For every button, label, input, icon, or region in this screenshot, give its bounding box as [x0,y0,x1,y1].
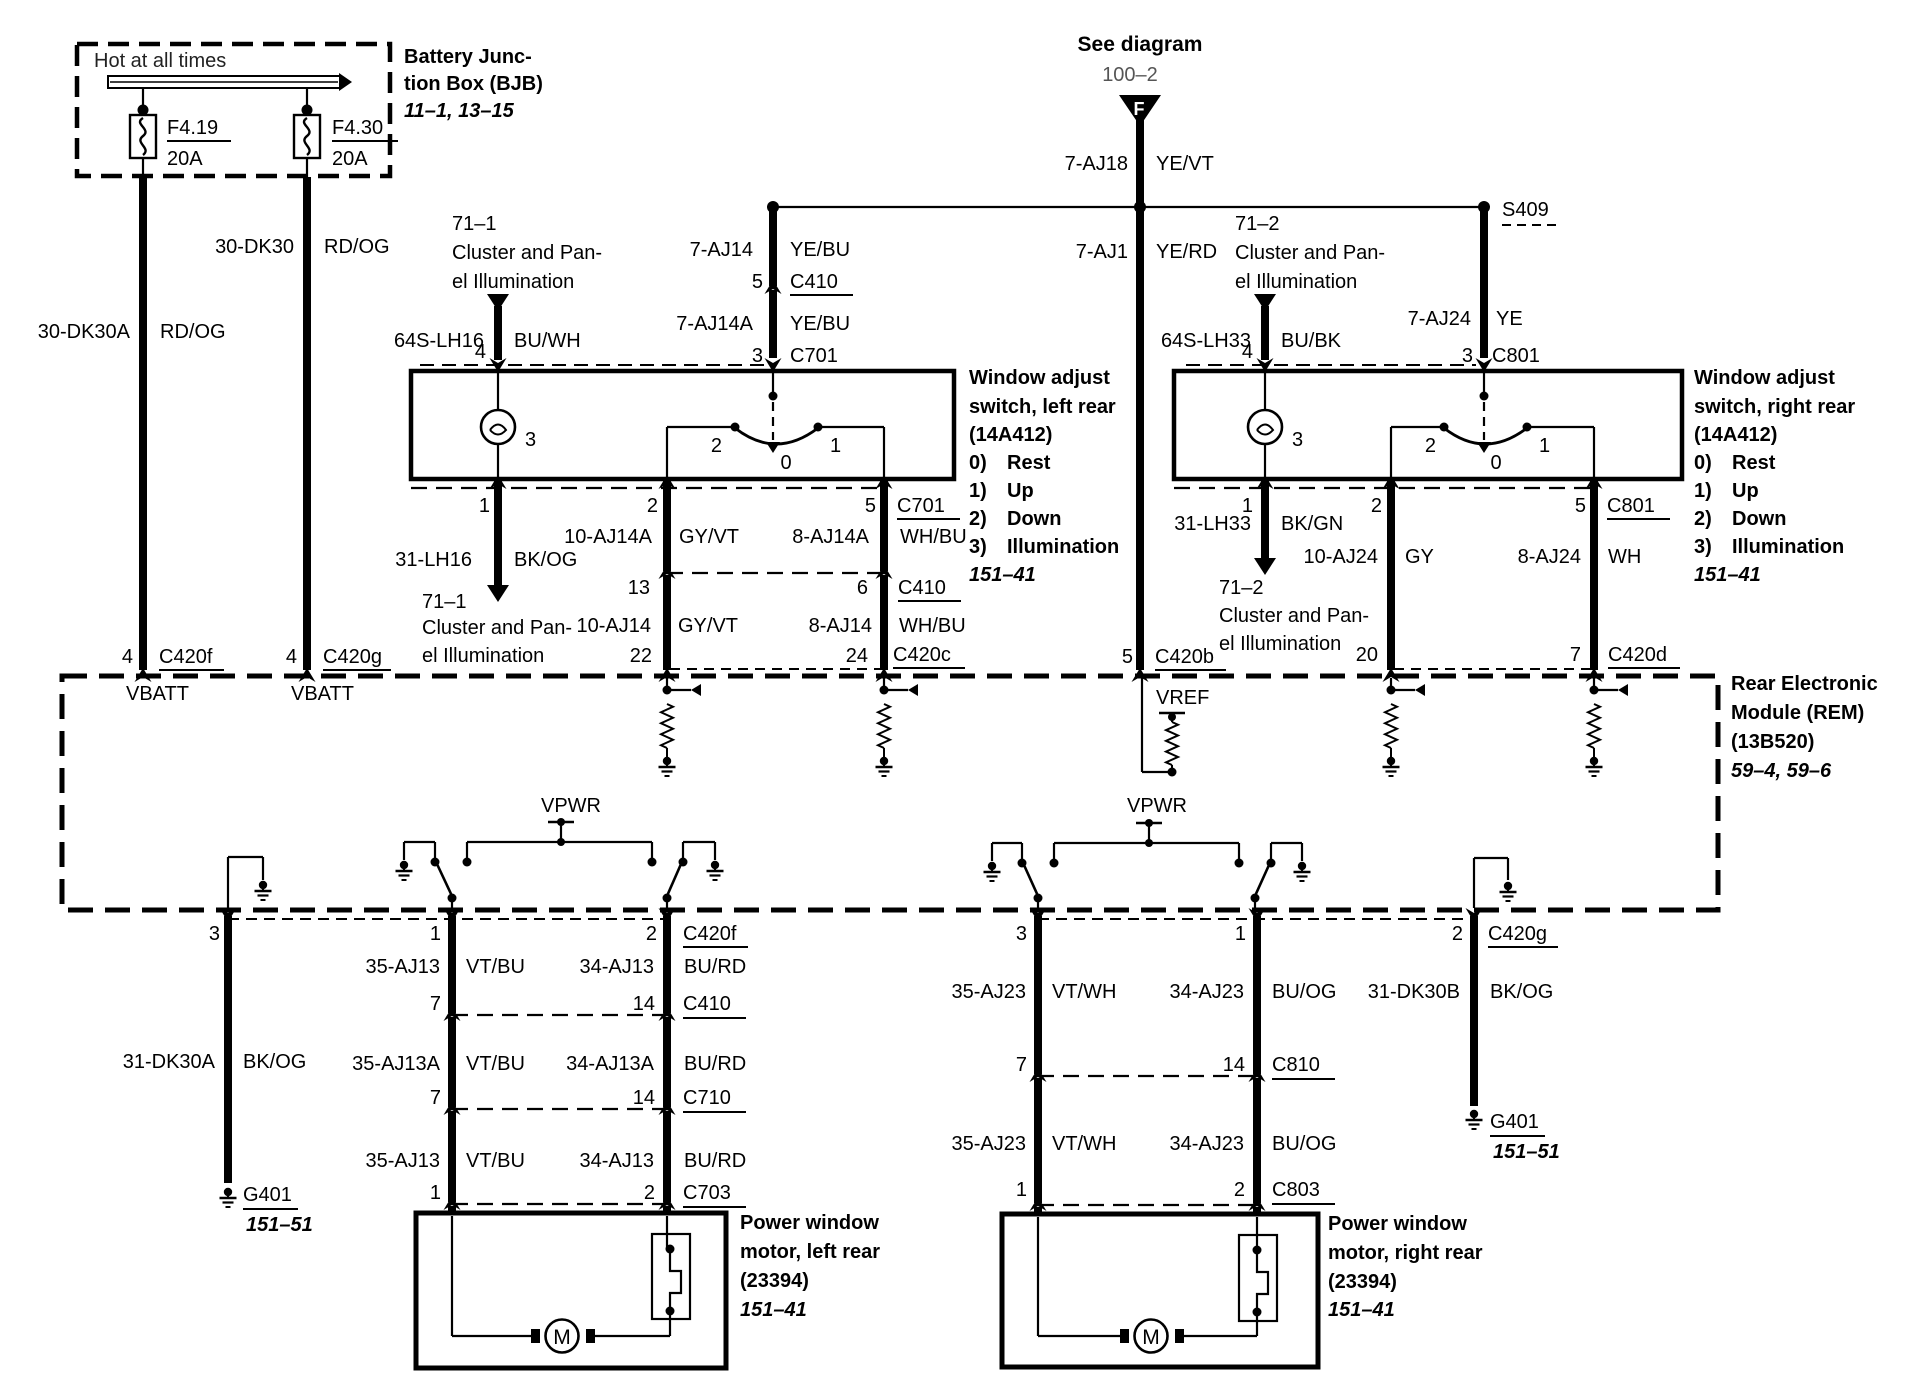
svg-text:5: 5 [1575,495,1586,517]
svg-text:C410: C410 [790,271,838,293]
svg-text:Cluster and Pan-: Cluster and Pan- [1235,242,1385,264]
svg-text:BU/BK: BU/BK [1281,330,1342,352]
connector C420g line below REM (right) [1038,918,1478,920]
svg-text:4: 4 [286,646,297,668]
svg-text:C420g: C420g [323,646,382,668]
svg-text:2): 2) [1694,508,1712,530]
svg-text:31-DK30B: 31-DK30B [1368,981,1460,1003]
switch common from C801 [1483,373,1485,393]
wire 8-AJ14A WH/BU [876,475,893,489]
splice S409 [1478,201,1490,213]
svg-text:2: 2 [644,1182,655,1204]
wire 10-AJ14 GY/VT [663,575,671,670]
svg-text:2: 2 [1234,1179,1245,1201]
svg-text:2: 2 [646,923,657,945]
thermal circuit breaker (left motor) [652,1234,690,1319]
svg-text:71–2: 71–2 [1235,213,1280,235]
REM input sensing network under pin 24 [880,686,889,695]
junction dot at 7-AJ14 branch [767,201,779,213]
svg-text:151–51: 151–51 [246,1214,313,1236]
svg-text:switch, right rear: switch, right rear [1694,396,1855,418]
REM pin 2 output wire 34-AJ13 BU/RD [659,908,676,922]
svg-text:20: 20 [1356,644,1378,666]
wire 8-AJ14 WH/BU [880,575,888,670]
svg-text:Battery Junc-: Battery Junc- [404,46,532,68]
switch common from C701 [772,373,774,393]
svg-text:2): 2) [969,508,987,530]
svg-text:GY/VT: GY/VT [678,615,738,637]
svg-text:20A: 20A [332,148,368,170]
wire 35-AJ13A VT/BU [448,1017,456,1107]
svg-text:VBATT: VBATT [126,683,189,705]
switch contact 2 right [1440,423,1449,432]
connector C420f line below REM (left) [228,918,668,920]
lamp symbol (illumination) in right switch [1248,410,1282,444]
svg-text:10-AJ24: 10-AJ24 [1304,546,1379,568]
svg-text:Down: Down [1732,508,1786,530]
svg-text:C803: C803 [1272,1179,1320,1201]
svg-text:Rear Electronic: Rear Electronic [1731,673,1878,695]
REM pin 1 output wire 34-AJ23 BU/OG [1249,908,1266,922]
svg-text:Up: Up [1732,480,1759,502]
svg-text:151–41: 151–41 [1328,1299,1395,1321]
thermal circuit breaker (right motor) [1239,1235,1277,1321]
svg-text:F: F [1134,99,1145,119]
svg-text:71–1: 71–1 [422,591,467,613]
power bus bar with arrow [108,76,340,88]
horizontal splice wire to S409 [773,206,1484,208]
svg-text:Power window: Power window [740,1212,879,1234]
svg-text:WH/BU: WH/BU [900,526,967,548]
relay SPDT for REM pin 1 (right motor) [1271,842,1302,844]
svg-text:switch, left rear: switch, left rear [969,396,1116,418]
switch blade arc [735,428,818,444]
window adjust switch left rear box [411,371,954,479]
svg-text:Cluster and Pan-: Cluster and Pan- [1219,605,1369,627]
svg-text:(23394): (23394) [740,1270,809,1292]
fuse F4.19 20A [130,115,156,158]
svg-text:VT/WH: VT/WH [1052,1133,1116,1155]
svg-text:35-AJ13: 35-AJ13 [366,956,441,978]
svg-text:C410: C410 [898,577,946,599]
svg-text:5: 5 [1122,646,1133,668]
svg-text:14: 14 [1223,1054,1245,1076]
svg-text:0): 0) [969,452,987,474]
svg-text:motor, left rear: motor, left rear [740,1241,880,1263]
svg-text:WH: WH [1608,546,1641,568]
wire 31-LH16 BK/OG to illumination [490,475,507,489]
svg-text:el Illumination: el Illumination [422,645,544,667]
svg-text:F4.19: F4.19 [167,117,218,139]
svg-text:Power window: Power window [1328,1213,1467,1235]
connector C410 line pins 13 and 6 [667,572,884,574]
wire 64S-LH16 BU/WH with source arrow [487,294,509,311]
svg-text:Window adjust: Window adjust [969,367,1110,389]
window adjust switch right rear box [1174,371,1682,479]
switch contact 1 right [1523,423,1532,432]
svg-text:151–41: 151–41 [969,564,1036,586]
wire 8-AJ24 WH [1586,475,1603,489]
svg-text:1: 1 [1539,435,1550,457]
wire 10-AJ24 GY [1383,475,1400,489]
switch blade arc right [1444,428,1527,444]
svg-text:WH/BU: WH/BU [899,615,966,637]
svg-text:2: 2 [711,435,722,457]
svg-text:C420d: C420d [1608,644,1667,666]
svg-text:el Illumination: el Illumination [1235,271,1357,293]
svg-text:BK/OG: BK/OG [1490,981,1553,1003]
Rear Electronic Module (REM) dashed box [62,676,1718,910]
svg-text:14: 14 [633,1087,655,1109]
svg-text:YE/BU: YE/BU [790,239,850,261]
svg-text:24: 24 [846,645,868,667]
relay SPDT for REM pin 2 (left motor down) [683,841,715,843]
thin dashed connector line above right switch box [1186,364,1476,366]
svg-text:GY/VT: GY/VT [679,526,739,548]
wire 30-DK30 RD/OG from fuse F4.30 to REM pin 4 [306,158,308,177]
wire: bus to fuse F4.30 [306,88,308,116]
svg-text:71–1: 71–1 [452,213,497,235]
wire 7-AJ18 YE/VT from F to junction [1136,120,1144,670]
svg-text:BK/OG: BK/OG [514,549,577,571]
svg-text:YE/VT: YE/VT [1156,153,1214,175]
svg-text:M: M [553,1326,571,1349]
svg-text:1): 1) [1694,480,1712,502]
svg-text:35-AJ13: 35-AJ13 [366,1150,441,1172]
svg-text:13: 13 [628,577,650,599]
svg-text:34-AJ13: 34-AJ13 [580,1150,655,1172]
REM pin 1 output wire 35-AJ13 VT/BU [444,908,461,922]
wire 34-AJ23 BU/OG (lower) [1253,1078,1261,1203]
svg-text:4: 4 [122,646,133,668]
junction dot on 7-AJ18 [1134,201,1146,213]
svg-text:5: 5 [865,495,876,517]
svg-text:20A: 20A [167,148,203,170]
svg-text:VBATT: VBATT [291,683,354,705]
svg-text:Rest: Rest [1732,452,1776,474]
svg-text:59–4, 59–6: 59–4, 59–6 [1731,760,1832,782]
svg-text:VT/BU: VT/BU [466,1053,525,1075]
REM pin 3 output wire 35-AJ23 VT/WH [1030,908,1047,922]
svg-text:RD/OG: RD/OG [324,236,390,258]
svg-text:64S-LH33: 64S-LH33 [1161,330,1251,352]
svg-text:0): 0) [1694,452,1712,474]
svg-text:1: 1 [430,923,441,945]
svg-text:C410: C410 [683,993,731,1015]
relay SPDT for REM pin 1 (left motor up) [404,841,435,843]
connector C710 line pins 7 and 14 [452,1108,670,1110]
svg-text:BK/GN: BK/GN [1281,513,1343,535]
svg-text:(13B520): (13B520) [1731,731,1814,753]
svg-text:BU/OG: BU/OG [1272,1133,1336,1155]
svg-text:VPWR: VPWR [1127,795,1187,817]
svg-text:C703: C703 [683,1182,731,1204]
svg-text:Cluster and Pan-: Cluster and Pan- [422,617,572,639]
svg-text:VT/BU: VT/BU [466,1150,525,1172]
svg-text:(14A412): (14A412) [969,424,1052,446]
svg-text:64S-LH16: 64S-LH16 [394,330,484,352]
ground G401 (left) 151-51 [224,1188,232,1196]
svg-text:BU/RD: BU/RD [684,1150,746,1172]
switch contact 2 [731,423,740,432]
svg-text:3: 3 [752,345,763,367]
svg-text:C420f: C420f [159,646,213,668]
svg-text:BK/OG: BK/OG [243,1051,306,1073]
motor internal wiring left [451,1216,453,1336]
svg-text:3: 3 [525,429,536,451]
REM pin 3 output wire 31-DK30A BK/OG to ground [220,908,237,922]
wire 34-AJ13 BU/RD (lower) [663,1111,671,1202]
svg-text:VT/BU: VT/BU [466,956,525,978]
svg-text:34-AJ13A: 34-AJ13A [566,1053,654,1075]
svg-text:8-AJ14: 8-AJ14 [809,615,872,637]
svg-text:31-DK30A: 31-DK30A [123,1051,216,1073]
svg-text:Rest: Rest [1007,452,1051,474]
svg-text:11–1, 13–15: 11–1, 13–15 [404,100,515,122]
svg-text:BU/OG: BU/OG [1272,981,1336,1003]
svg-text:31-LH33: 31-LH33 [1174,513,1251,535]
svg-text:C420g: C420g [1488,923,1547,945]
svg-text:C810: C810 [1272,1054,1320,1076]
wire 7-AJ24 YE from S409 [1480,207,1488,358]
wire 64S-LH33 BU/BK with source arrow [1254,294,1276,311]
wire: bus to fuse F4.19 [142,88,144,116]
svg-text:0: 0 [1490,452,1501,474]
svg-text:34-AJ23: 34-AJ23 [1170,981,1245,1003]
svg-text:1: 1 [1235,923,1246,945]
svg-text:10-AJ14A: 10-AJ14A [564,526,652,548]
svg-text:YE: YE [1496,308,1523,330]
svg-text:motor, right rear: motor, right rear [1328,1242,1483,1264]
svg-text:7-AJ14: 7-AJ14 [690,239,753,261]
svg-text:7: 7 [430,1087,441,1109]
fuse F4.30 20A [294,115,320,158]
svg-text:C801: C801 [1492,345,1540,367]
ground return bracket for REM pin 2 (right) [1474,857,1508,859]
svg-text:8-AJ14A: 8-AJ14A [792,526,869,548]
svg-text:3: 3 [1016,923,1027,945]
svg-text:Down: Down [1007,508,1061,530]
svg-text:C420b: C420b [1155,646,1214,668]
svg-text:G401: G401 [243,1184,292,1206]
svg-text:tion Box (BJB): tion Box (BJB) [404,73,543,95]
VPWR feed rail for left motor relay contacts [467,841,652,843]
svg-text:BU/RD: BU/RD [684,956,746,978]
svg-text:71–2: 71–2 [1219,577,1264,599]
wire 10-AJ14A GY/VT [659,475,676,489]
svg-text:7-AJ14A: 7-AJ14A [676,313,753,335]
svg-text:3): 3) [969,536,987,558]
svg-text:S409: S409 [1502,199,1549,221]
svg-text:3: 3 [1292,429,1303,451]
svg-text:4: 4 [1242,341,1253,363]
svg-text:(23394): (23394) [1328,1271,1397,1293]
svg-text:1): 1) [969,480,987,502]
svg-text:BU/RD: BU/RD [684,1053,746,1075]
svg-text:8-AJ24: 8-AJ24 [1518,546,1581,568]
motor M symbol right [1120,1329,1129,1343]
svg-text:3): 3) [1694,536,1712,558]
connector C703 line pins 1 and 2 [452,1203,670,1205]
svg-text:30-DK30A: 30-DK30A [38,321,131,343]
svg-text:F4.30: F4.30 [332,117,383,139]
svg-text:3: 3 [209,923,220,945]
thin dashed connector line above left switch box [420,364,765,366]
svg-text:7-AJ1: 7-AJ1 [1076,241,1128,263]
svg-text:3: 3 [1462,345,1473,367]
svg-text:VPWR: VPWR [541,795,601,817]
wire 31-LH33 BK/GN to illumination [1257,475,1274,489]
power window motor left rear box [416,1213,726,1368]
svg-text:7: 7 [1016,1054,1027,1076]
svg-text:Cluster and Pan-: Cluster and Pan- [452,242,602,264]
REM pin 2 output wire 31-DK30B BK/OG to ground [1466,908,1483,922]
connector C810 line pins 7 and 14 [1038,1075,1260,1077]
svg-text:2: 2 [1371,495,1382,517]
power window motor right rear box [1002,1214,1318,1367]
svg-text:VREF: VREF [1156,687,1209,709]
svg-text:YE/BU: YE/BU [790,313,850,335]
svg-text:7-AJ24: 7-AJ24 [1408,308,1471,330]
ground return bracket for REM pin 3 (left) [228,856,263,858]
svg-text:C701: C701 [897,495,945,517]
ground G401 (right) 151-51 [1470,1110,1478,1118]
svg-text:Window adjust: Window adjust [1694,367,1835,389]
connector C803 line pins 1 and 2 [1038,1204,1260,1206]
motor M symbol left [531,1329,540,1343]
junction dot above F4.19 [138,105,149,116]
svg-text:2: 2 [647,495,658,517]
svg-text:Module (REM): Module (REM) [1731,702,1864,724]
svg-text:31-LH16: 31-LH16 [395,549,472,571]
wire 35-AJ23 VT/WH (lower) [1034,1078,1042,1203]
svg-text:151–51: 151–51 [1493,1141,1560,1163]
svg-text:151–41: 151–41 [1694,564,1761,586]
connector C701 line below left switch [411,487,884,489]
REM input sensing network under pin 20 [1387,686,1396,695]
svg-text:C801: C801 [1607,495,1655,517]
svg-text:RD/OG: RD/OG [160,321,226,343]
svg-text:34-AJ13: 34-AJ13 [580,956,655,978]
svg-text:100–2: 100–2 [1102,64,1158,86]
svg-text:10-AJ14: 10-AJ14 [577,615,652,637]
svg-text:5: 5 [752,271,763,293]
svg-text:7: 7 [1570,644,1581,666]
svg-text:30-DK30: 30-DK30 [215,236,294,258]
svg-text:C420c: C420c [893,644,951,666]
lamp symbol (illumination) in left switch [481,410,515,444]
svg-text:Illumination: Illumination [1732,536,1844,558]
svg-text:el Illumination: el Illumination [1219,633,1341,655]
svg-text:7: 7 [430,993,441,1015]
svg-text:14: 14 [633,993,655,1015]
svg-text:M: M [1142,1326,1160,1349]
wire 34-AJ13A BU/RD [663,1017,671,1107]
svg-text:35-AJ23: 35-AJ23 [952,1133,1027,1155]
connector C701 pin 3 [765,358,782,372]
svg-text:6: 6 [857,577,868,599]
svg-text:35-AJ23: 35-AJ23 [952,981,1027,1003]
relay SPDT for REM pin 3 (right motor) [992,842,1022,844]
svg-text:G401: G401 [1490,1111,1539,1133]
wire 7-AJ14A YE/BU [769,290,777,358]
connector C410 line pins 7 and 14 (motor branch) [452,1014,670,1016]
svg-text:el Illumination: el Illumination [452,271,574,293]
svg-text:4: 4 [475,341,486,363]
svg-text:1: 1 [430,1182,441,1204]
svg-text:Illumination: Illumination [1007,536,1119,558]
svg-text:(14A412): (14A412) [1694,424,1777,446]
svg-text:34-AJ23: 34-AJ23 [1170,1133,1245,1155]
REM input sensing network under pin 7 [1590,686,1599,695]
Battery Junction Box (BJB) dashed enclosure [77,44,390,176]
connector C801 line below right switch [1174,487,1594,489]
connector C410 pin 5 [765,280,782,294]
svg-text:7-AJ18: 7-AJ18 [1065,153,1128,175]
svg-text:GY: GY [1405,546,1434,568]
switch contact 1 [814,423,823,432]
svg-text:0: 0 [780,452,791,474]
svg-text:2: 2 [1452,923,1463,945]
REM input sensing network under pin 22 [663,686,672,695]
motor internal wiring right [1037,1217,1039,1336]
svg-text:22: 22 [630,645,652,667]
svg-text:YE/RD: YE/RD [1156,241,1217,263]
svg-text:151–41: 151–41 [740,1299,807,1321]
svg-text:1: 1 [479,495,490,517]
svg-text:C420f: C420f [683,923,737,945]
svg-text:Up: Up [1007,480,1034,502]
svg-text:1: 1 [1016,1179,1027,1201]
svg-text:C710: C710 [683,1087,731,1109]
wire 7-AJ14 YE/BU [769,207,777,286]
svg-text:2: 2 [1425,435,1436,457]
wire 30-DK30A RD/OG from fuse F4.19 to REM pin 4 [142,158,144,177]
junction dot above F4.30 [302,105,313,116]
svg-text:1: 1 [830,435,841,457]
svg-text:Hot at all times: Hot at all times [94,50,226,72]
VPWR feed rail for right motor relay contacts [1054,842,1239,844]
svg-text:35-AJ13A: 35-AJ13A [352,1053,440,1075]
svg-text:C701: C701 [790,345,838,367]
wire 35-AJ13 VT/BU (lower) [448,1111,456,1202]
svg-text:See diagram: See diagram [1078,33,1203,56]
svg-text:VT/WH: VT/WH [1052,981,1116,1003]
svg-text:BU/WH: BU/WH [514,330,581,352]
